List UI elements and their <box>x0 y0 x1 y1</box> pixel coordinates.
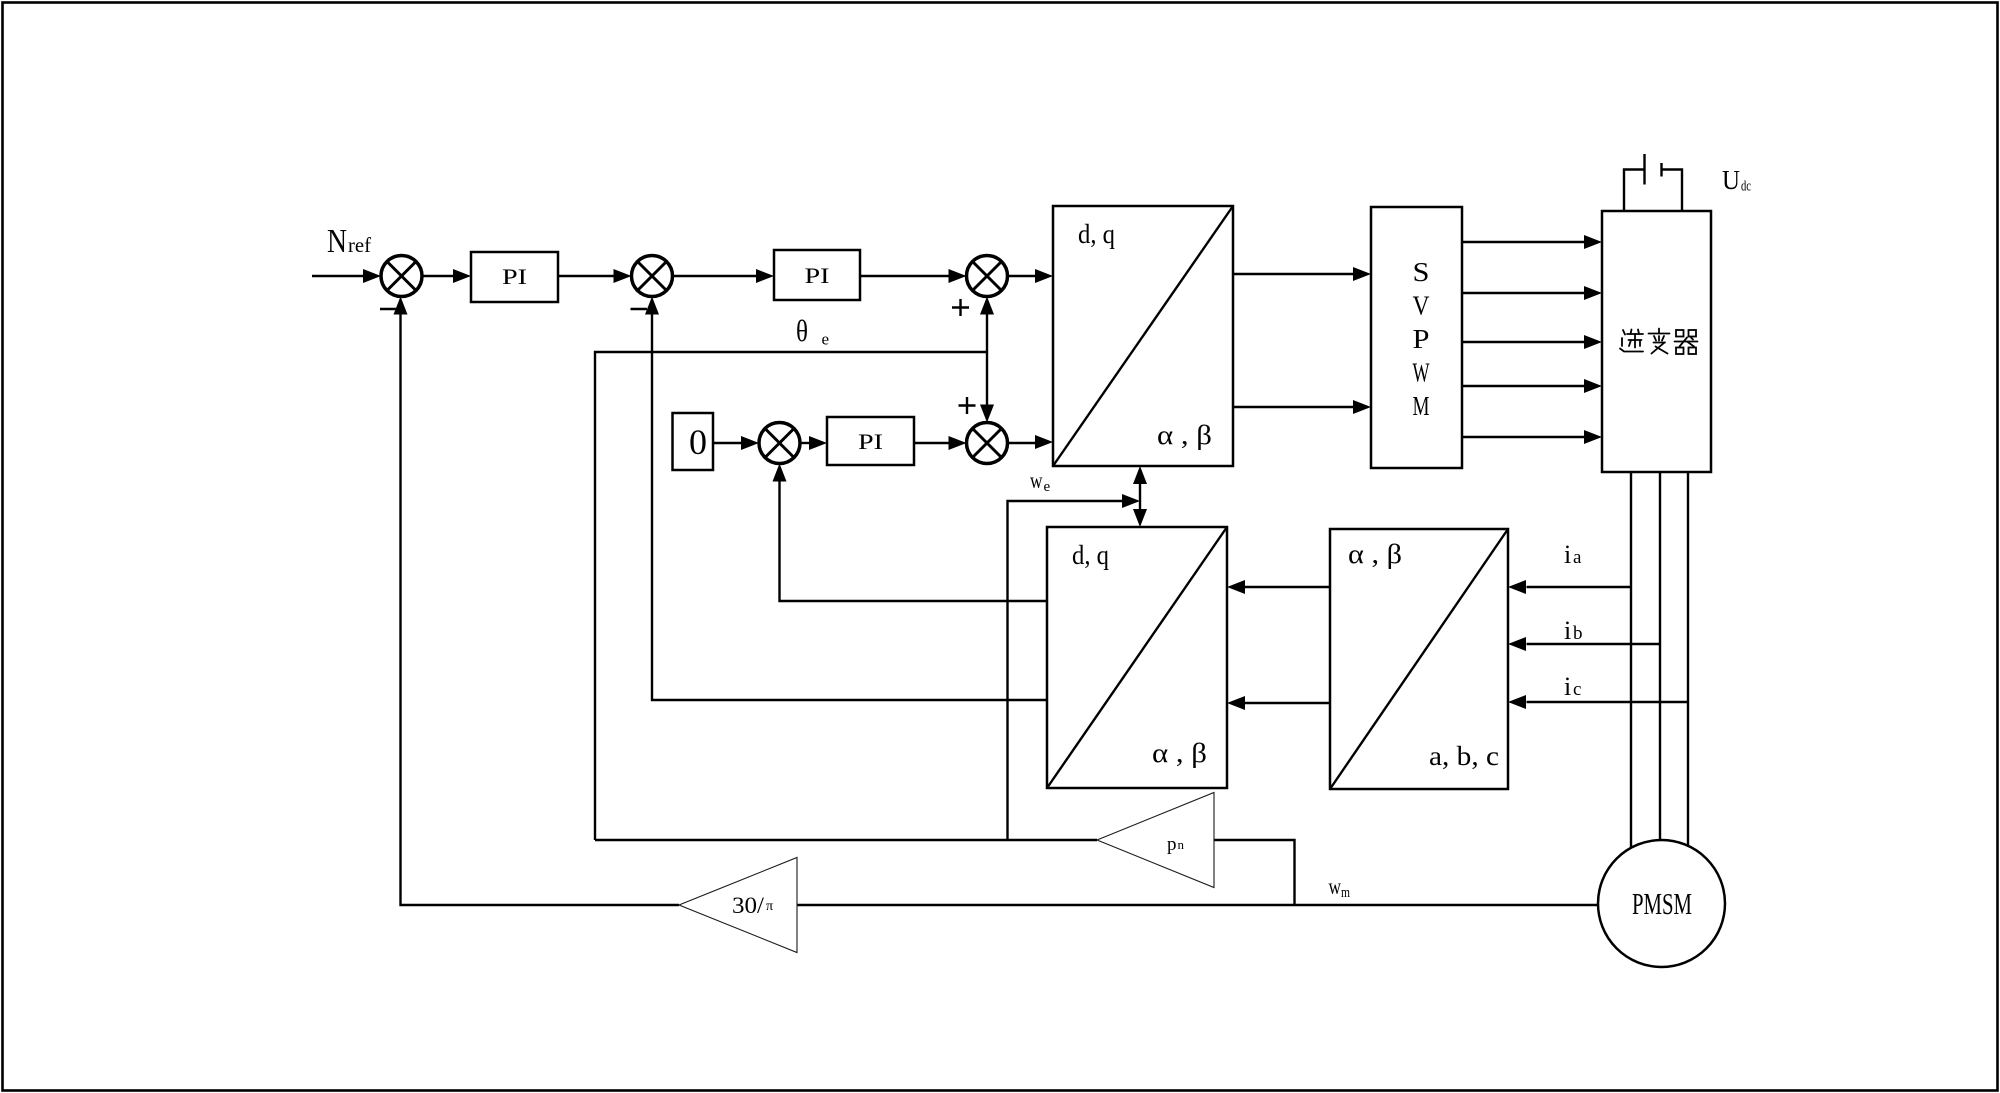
wire: pn output (we) to theta-e riser <box>595 839 1097 841</box>
summing junction S3 (adds theta-e, upper) <box>967 256 1008 297</box>
svg-text:α , β: α , β <box>1152 738 1207 768</box>
svg-text:d, q: d, q <box>1072 540 1109 570</box>
wire: PI2 to summing junction S3 <box>860 269 967 283</box>
wire: i-beta from Clarke to Park <box>1227 696 1330 710</box>
svg-text:V: V <box>1413 291 1430 321</box>
wire: wm from PMSM to 30/pi gain and pn branch <box>797 840 1598 905</box>
svg-text:a, b, c: a, b, c <box>1429 741 1499 771</box>
svg-text:i: i <box>1564 540 1571 569</box>
wire: we (electrical speed) into transform blocks <box>1008 494 1141 840</box>
wire: speed feedback into S1 <box>394 297 680 906</box>
svg-text:W: W <box>1413 358 1430 388</box>
wire: S2 to PI2 <box>673 269 775 283</box>
svg-text:S: S <box>1413 257 1430 287</box>
svg-text:e: e <box>1044 479 1051 495</box>
svg-text:e: e <box>822 330 830 349</box>
label ic <box>1564 672 1581 701</box>
label ia <box>1564 540 1582 569</box>
svg-text:α , β: α , β <box>1348 539 1402 569</box>
svg-text:PI: PI <box>805 263 830 288</box>
wire: three phase lines from inverter to PMSM <box>1631 472 1688 850</box>
wire: S1 to PI1 <box>422 269 471 283</box>
svg-text:i: i <box>1564 672 1571 701</box>
wire: S5 to dq->alphabeta transform lower input <box>1008 435 1054 449</box>
block PI1 speed regulator <box>471 252 558 302</box>
gain triangle pn (pole pairs) <box>1097 793 1214 888</box>
svg-text:b: b <box>1573 623 1583 644</box>
label we <box>1030 468 1051 495</box>
summing junction S2 (iq error) <box>632 256 673 297</box>
block inverter (Chinese label) <box>1602 211 1711 472</box>
svg-text:a: a <box>1573 547 1582 568</box>
svg-text:PI: PI <box>502 264 527 289</box>
svg-text:PI: PI <box>858 429 883 454</box>
wire: S3 to dq->alphabeta transform <box>1008 269 1054 283</box>
svg-text:c: c <box>1573 679 1581 700</box>
wire: SVPWM gate signal 4 to inverter <box>1462 379 1602 393</box>
sign minus at S1 <box>380 308 397 310</box>
svg-text:PMSM: PMSM <box>1632 886 1692 921</box>
wire: ia current tap <box>1508 580 1631 594</box>
wire: ib current tap <box>1508 637 1660 651</box>
wire: i-alpha from Clarke to Park <box>1227 580 1330 594</box>
wire: theta-e distribution line with arrows into S3 and S5 <box>595 297 994 841</box>
gain triangle 30/pi <box>679 858 797 953</box>
svg-text:θ: θ <box>796 313 808 348</box>
wire: double-headed arrow between the two dq transforms <box>1133 466 1147 527</box>
svg-text:m: m <box>1341 885 1350 901</box>
svg-text:0: 0 <box>689 422 707 462</box>
svg-text:ref: ref <box>348 233 371 257</box>
wire: SVPWM gate signal 1 to inverter <box>1462 235 1602 249</box>
block PI2 q-axis current regulator <box>774 250 860 300</box>
label theta-e <box>796 313 829 349</box>
wire: SVPWM gate signal 5 to inverter <box>1462 430 1602 444</box>
svg-text:π: π <box>766 899 773 914</box>
wire: SVPWM gate signal 2 to inverter <box>1462 286 1602 300</box>
motor PMSM <box>1598 840 1725 967</box>
wire: Nref input into summing junction S1 <box>312 269 381 283</box>
wire: PI1 to summing junction S2 <box>558 269 632 283</box>
svg-text:n: n <box>1178 837 1185 852</box>
block SVPWM modulator <box>1371 207 1462 468</box>
DC source battery symbol above inverter <box>1624 154 1682 211</box>
wire: 0 block to summing junction S4 <box>713 436 759 450</box>
svg-text:U: U <box>1722 165 1740 195</box>
wire: U1 upper output to SVPWM <box>1233 267 1371 281</box>
svg-text:α , β: α , β <box>1157 420 1212 450</box>
wire: U1 lower output to SVPWM <box>1233 400 1371 414</box>
sign plus at S3 <box>952 299 969 316</box>
label wm <box>1329 874 1351 901</box>
wire: SVPWM gate signal 3 to inverter <box>1462 335 1602 349</box>
summing junction S5 (adds theta-e, lower) <box>967 423 1008 464</box>
wire: PI3 to summing junction S5 <box>914 436 967 450</box>
label ib <box>1564 616 1583 645</box>
sign minus at S2 <box>631 308 648 310</box>
block constant 0 (id reference) <box>673 413 714 470</box>
svg-text:M: M <box>1413 391 1430 421</box>
block U1 dq to alpha-beta inverse Park transform <box>1053 206 1233 466</box>
wire: ic current tap <box>1508 695 1688 709</box>
svg-text:p: p <box>1167 834 1177 855</box>
svg-text:w: w <box>1030 468 1043 493</box>
sign plus at S5 <box>959 397 976 414</box>
block PI3 d-axis current regulator <box>827 417 914 465</box>
wire: S4 to PI3 <box>800 436 827 450</box>
svg-text:N: N <box>327 223 347 260</box>
label Udc <box>1722 165 1751 195</box>
wire: id feedback into S4 <box>773 464 1048 602</box>
label Nref (speed reference) <box>327 223 371 260</box>
wire: iq feedback into S2 <box>645 297 1047 701</box>
block U3 abc to alpha-beta Clarke transform <box>1330 529 1508 789</box>
summing junction S4 (id error) <box>759 423 800 464</box>
svg-text:w: w <box>1329 874 1342 899</box>
block U2 alpha-beta to dq Park transform <box>1047 527 1227 788</box>
svg-text:30/: 30/ <box>732 893 765 918</box>
svg-text:d, q: d, q <box>1078 219 1115 249</box>
svg-text:i: i <box>1564 616 1571 645</box>
svg-text:dc: dc <box>1741 179 1751 195</box>
svg-text:P: P <box>1413 324 1430 354</box>
summing junction S1 (speed error) <box>381 256 422 297</box>
